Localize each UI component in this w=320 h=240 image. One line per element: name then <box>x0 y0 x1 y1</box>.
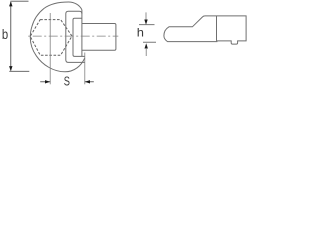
svg-text:h: h <box>137 25 144 39</box>
svg-text:b: b <box>2 27 8 42</box>
svg-text:S: S <box>64 75 70 89</box>
